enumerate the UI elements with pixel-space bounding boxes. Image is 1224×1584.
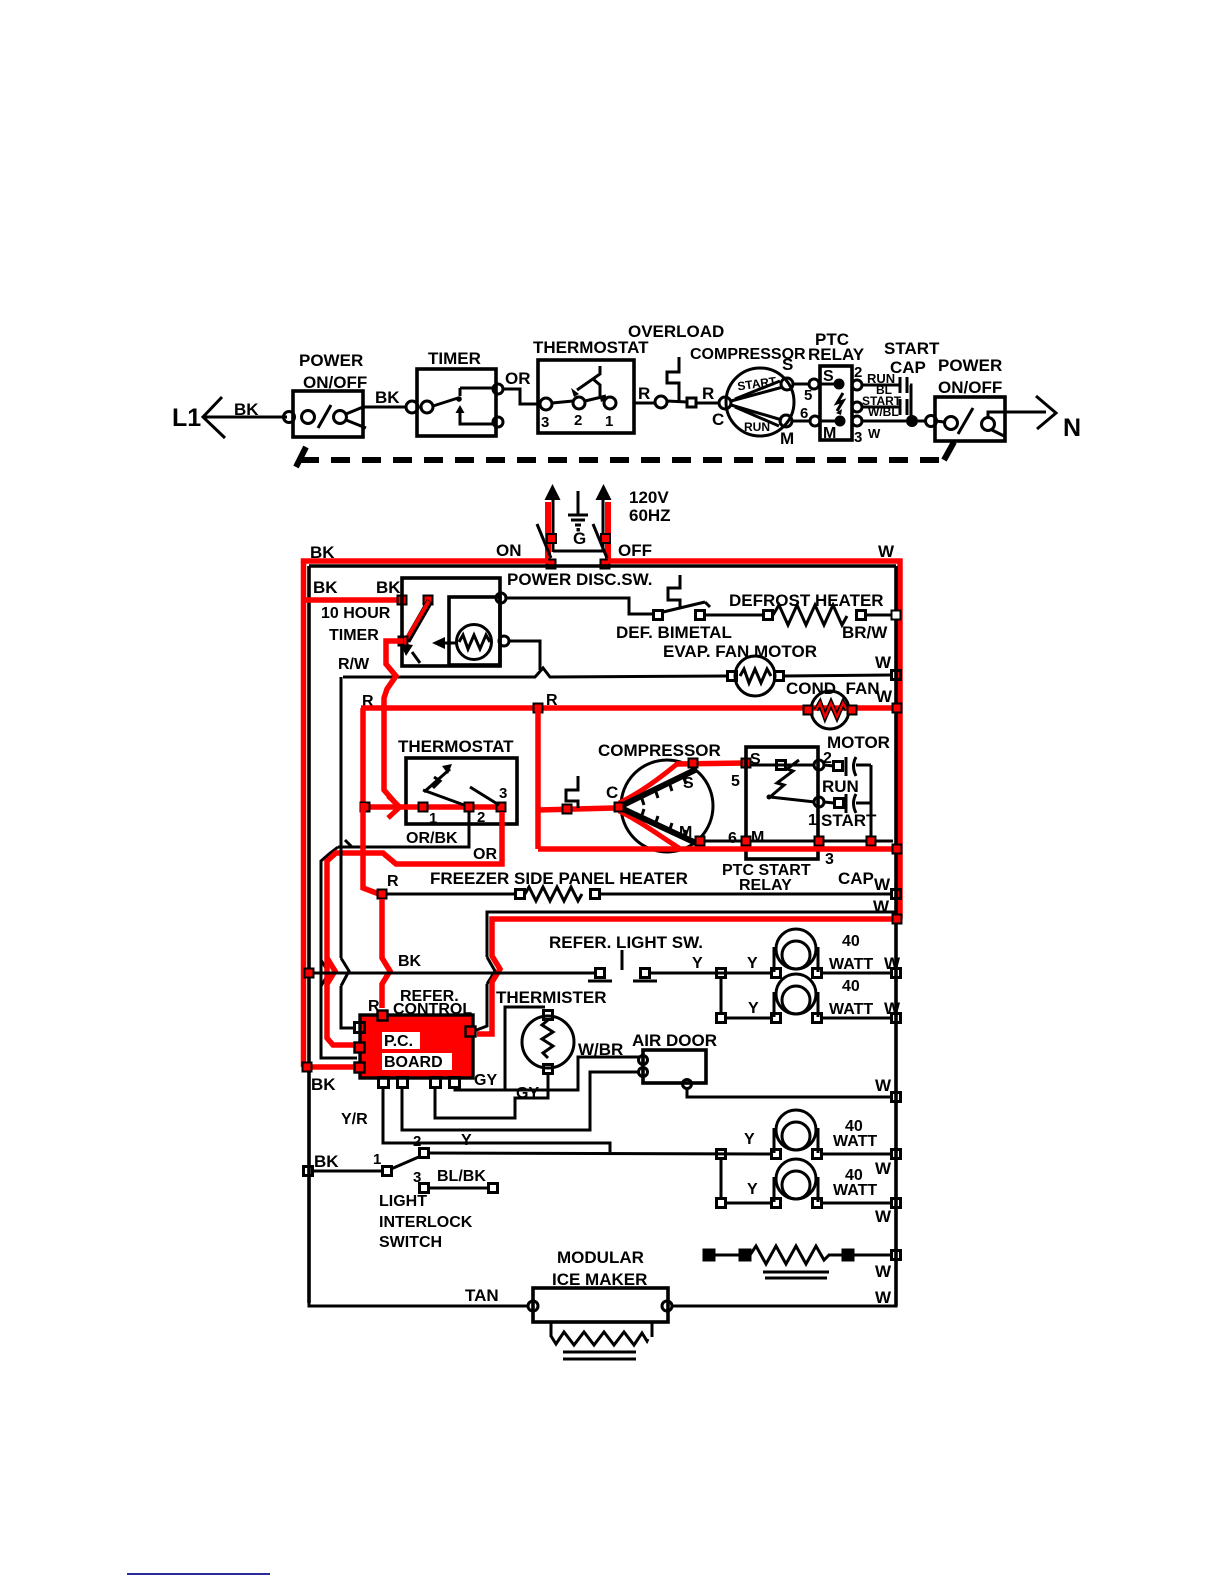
svg-text:W/BR: W/BR — [578, 1040, 623, 1059]
svg-text:3: 3 — [854, 429, 862, 446]
pc terminal left 2 — [355, 1043, 365, 1053]
svg-text:BK: BK — [234, 400, 259, 419]
modular ice maker box — [528, 1288, 672, 1322]
thermostat S2 — [533, 338, 649, 433]
svg-text:120V: 120V — [629, 488, 669, 507]
node N — [1036, 396, 1081, 442]
svg-text:3: 3 — [499, 785, 507, 802]
relay internal wire to start — [770, 797, 815, 802]
P.C. BOARD U1 — [360, 1015, 473, 1078]
refer light switch — [588, 950, 657, 981]
svg-text:BOARD: BOARD — [384, 1054, 443, 1071]
run capacitor — [824, 757, 871, 776]
wire L1 to power switch — [203, 416, 287, 419]
svg-text:CAP: CAP — [890, 358, 926, 377]
TIMER-DEFROST-SECTION — [305, 575, 902, 849]
chevron on BK wire — [327, 958, 335, 984]
red drop to PC board top — [382, 899, 390, 1008]
timer T1 — [417, 349, 503, 436]
svg-text:W: W — [875, 1262, 892, 1281]
terminal circle — [496, 593, 506, 603]
svg-text:G: G — [573, 529, 586, 548]
svg-text:W: W — [875, 1159, 892, 1178]
wire ice maker to right border — [672, 1300, 896, 1306]
red top border left segment (live bus) — [304, 561, 549, 563]
GY wire thermister bottom to pc3 — [435, 1073, 548, 1118]
svg-text:RUN: RUN — [744, 420, 770, 434]
svg-text:ON/OFF: ON/OFF — [303, 373, 367, 392]
node red — [815, 837, 824, 846]
pc terminal bottom 2 — [398, 1078, 408, 1088]
OR/BK black wire from terminal 2 — [338, 812, 469, 847]
ice maker mold heater — [551, 1322, 652, 1359]
svg-text:INTERLOCK: INTERLOCK — [379, 1214, 473, 1231]
svg-text:RELAY: RELAY — [808, 345, 865, 364]
svg-text:GY: GY — [474, 1072, 497, 1089]
svg-text:Y: Y — [744, 1131, 755, 1148]
svg-text:W: W — [875, 1288, 892, 1307]
crossbar between prongs — [553, 550, 603, 553]
node red on border — [893, 704, 902, 713]
overload step symbol — [566, 776, 578, 808]
svg-text:OFF: OFF — [618, 541, 652, 560]
timer motor M1 — [432, 625, 492, 660]
svg-text:COND. FAN: COND. FAN — [786, 679, 880, 698]
thermostat terminal 2 — [465, 803, 474, 812]
thermostat terminal 1 — [419, 803, 428, 812]
svg-text:S: S — [782, 355, 793, 374]
evap fan motor M2 — [728, 656, 784, 696]
relay terminal 1 circle — [814, 797, 824, 807]
svg-text:10 HOUR: 10 HOUR — [321, 605, 391, 622]
pc terminal bottom 1 — [379, 1078, 389, 1088]
wire to lamp2 — [726, 1017, 772, 1020]
black top border — [309, 564, 896, 568]
black right border — [894, 566, 898, 1306]
drop to lamp2 — [720, 978, 723, 1014]
TAN wire from left border — [309, 1303, 529, 1306]
node red on border — [303, 1063, 312, 1072]
node red on border — [893, 915, 902, 924]
svg-text:R: R — [387, 873, 399, 890]
red branch B to thermostat — [384, 708, 398, 806]
svg-text:THERMOSTAT: THERMOSTAT — [398, 737, 514, 756]
svg-text:40: 40 — [842, 978, 860, 995]
MAIN-BORDERS — [304, 542, 901, 1306]
REFER-LIGHT-SECTION — [305, 912, 902, 1034]
svg-text:POWER: POWER — [299, 351, 363, 370]
wire pc2 to air door lower — [402, 1072, 640, 1130]
svg-text:WATT: WATT — [829, 1001, 873, 1018]
black left border — [307, 566, 311, 1303]
junction square — [717, 969, 726, 978]
red branch A continues to node — [363, 803, 379, 894]
relay terminal 2 circle — [814, 760, 824, 770]
wire to lamp4 — [726, 1202, 772, 1205]
svg-text:C: C — [712, 410, 724, 429]
compressor M wire — [700, 840, 893, 843]
air door box — [639, 1050, 707, 1089]
svg-text:TAN: TAN — [465, 1286, 499, 1305]
svg-text:W: W — [884, 999, 901, 1018]
drop to lamp4 — [720, 1159, 723, 1199]
svg-text:W: W — [875, 1076, 892, 1095]
pc terminal left 1 — [355, 1023, 365, 1033]
wire to N — [1005, 411, 1046, 414]
svg-text:5: 5 — [804, 387, 812, 404]
svg-text:M: M — [679, 824, 692, 841]
pc terminal bottom 3 — [431, 1078, 441, 1088]
black line from evap wire down to pc board — [341, 677, 356, 1028]
svg-text:3: 3 — [413, 1169, 421, 1186]
wire lamp1 to border — [822, 972, 893, 975]
defrost timer box — [402, 578, 500, 666]
wire timer to thermostat — [503, 389, 540, 404]
lamp 2 40W — [772, 974, 822, 1023]
svg-text:BK: BK — [310, 543, 335, 562]
start capacitor — [862, 339, 940, 441]
svg-text:2: 2 — [574, 412, 582, 429]
svg-text:REFER. LIGHT SW.: REFER. LIGHT SW. — [549, 933, 703, 952]
terminal square — [563, 805, 572, 814]
red left border — [301, 561, 307, 1067]
Y wire to lamp3 — [428, 1153, 772, 1154]
svg-text:2: 2 — [413, 1133, 421, 1150]
svg-text:2: 2 — [854, 364, 862, 381]
PLUG-120V — [496, 484, 671, 589]
compressor motor main — [615, 760, 714, 852]
thermostat blade 1 — [423, 790, 464, 805]
footer blue line — [127, 1573, 270, 1575]
svg-text:CAP: CAP — [838, 869, 874, 888]
dashed neutral return wire — [300, 457, 942, 463]
black top wire of light section — [474, 912, 896, 1031]
wire BK to interlock — [313, 1170, 384, 1173]
svg-text:1: 1 — [808, 812, 817, 829]
red wire from left border to pc board — [303, 1064, 357, 1070]
svg-text:ICE MAKER: ICE MAKER — [552, 1270, 647, 1289]
svg-text:W: W — [884, 954, 901, 973]
svg-text:6: 6 — [800, 405, 808, 422]
node red — [424, 596, 433, 605]
junction square — [717, 1150, 726, 1159]
node red on border left prong — [547, 560, 556, 569]
overload protector — [628, 322, 724, 407]
node red on bus — [534, 704, 543, 713]
wire overload to compressor — [696, 402, 719, 405]
node red on border — [893, 845, 902, 854]
svg-text:COMPRESSOR: COMPRESSOR — [598, 741, 721, 760]
svg-text:TIMER: TIMER — [428, 349, 481, 368]
svg-text:START: START — [821, 811, 877, 830]
svg-text:Y: Y — [747, 1181, 758, 1198]
wire BK to timer — [363, 406, 407, 409]
svg-text:1: 1 — [373, 1151, 381, 1168]
ice maker heater resistor row — [704, 1246, 901, 1278]
svg-text:W: W — [878, 542, 895, 561]
OR red wire from terminal 3 — [327, 812, 502, 1045]
svg-text:RELAY: RELAY — [739, 877, 792, 894]
thermostat terminal 3 — [497, 803, 506, 812]
node red — [378, 890, 387, 899]
svg-text:THERMISTER: THERMISTER — [496, 988, 607, 1007]
border terminal square — [304, 1167, 313, 1176]
svg-text:BK: BK — [313, 578, 338, 597]
svg-text:Y: Y — [461, 1132, 472, 1149]
red wire compressor S to PTC — [676, 763, 746, 764]
wire pc4 to thermister top and air door (W/BR) — [455, 1057, 640, 1090]
red drop to compressor — [535, 708, 541, 849]
svg-text:S: S — [683, 775, 694, 792]
svg-text:DEFROST HEATER: DEFROST HEATER — [729, 591, 884, 610]
svg-text:OR: OR — [473, 846, 497, 863]
wire lamp2 to border — [822, 1017, 893, 1020]
node red — [689, 759, 698, 768]
svg-text:N: N — [1063, 414, 1081, 442]
svg-text:DEF. BIMETAL: DEF. BIMETAL — [616, 623, 732, 642]
node red — [696, 837, 705, 846]
svg-text:Y/R: Y/R — [341, 1111, 368, 1128]
thermostat box — [406, 758, 517, 824]
lamp 3 40W — [772, 1110, 822, 1159]
chevron on BK wire — [321, 960, 329, 986]
svg-text:W: W — [868, 426, 881, 441]
node red — [398, 596, 407, 605]
svg-text:S: S — [823, 368, 834, 385]
svg-text:C: C — [606, 783, 618, 802]
svg-text:AIR DOOR: AIR DOOR — [632, 1031, 717, 1050]
svg-text:1: 1 — [429, 810, 437, 827]
red main bus — [361, 705, 900, 711]
wire timer switch to def bimetal — [506, 598, 654, 614]
thermister RT1 — [505, 1007, 574, 1090]
svg-text:EVAP. FAN MOTOR: EVAP. FAN MOTOR — [663, 642, 817, 661]
lamp 4 40W — [772, 1159, 822, 1208]
svg-text:M: M — [751, 829, 764, 846]
relay terminal 2 — [852, 380, 862, 390]
terminal circle — [499, 636, 509, 646]
svg-text:SWITCH: SWITCH — [379, 1234, 442, 1251]
lamp 1 40W — [772, 929, 822, 978]
red wire bus to compressor C — [538, 808, 614, 810]
node red — [867, 837, 876, 846]
terminal square on border — [892, 671, 901, 680]
defrost heater R — [729, 591, 901, 625]
wire to defrost heater — [705, 614, 763, 617]
svg-text:WATT: WATT — [833, 1133, 877, 1150]
svg-text:POWER DISC.SW.: POWER DISC.SW. — [507, 570, 652, 589]
svg-text:BR/W: BR/W — [842, 623, 888, 642]
pc terminal bottom 4 — [450, 1078, 460, 1088]
thermostat thermal arrow — [424, 764, 452, 792]
timer inner box — [449, 597, 500, 665]
wire evap fan feed — [343, 668, 727, 677]
svg-text:5: 5 — [731, 773, 740, 790]
svg-text:Y: Y — [748, 1000, 759, 1017]
relay internal wire top — [749, 764, 815, 767]
svg-text:Y: Y — [692, 955, 703, 972]
svg-text:R/W: R/W — [338, 656, 370, 673]
plug prong ON (left) — [537, 484, 561, 563]
svg-text:OR/BK: OR/BK — [406, 830, 458, 847]
switch S1 POWER ON/OFF — [293, 351, 367, 437]
svg-text:BK: BK — [314, 1152, 339, 1171]
svg-text:R: R — [638, 384, 650, 403]
svg-text:BK: BK — [398, 953, 422, 970]
wire timer motor to evap wire — [509, 641, 540, 670]
timer input terminals — [406, 401, 418, 413]
svg-text:W: W — [876, 687, 893, 706]
svg-text:POWER: POWER — [938, 356, 1002, 375]
svg-text:MOTOR: MOTOR — [827, 733, 890, 752]
Y/R wire pc1 down — [383, 1087, 610, 1152]
terminal circle — [284, 412, 295, 423]
svg-text:M: M — [823, 425, 836, 442]
svg-text:1: 1 — [605, 413, 613, 430]
THERMO-COMPRESSOR-SECTION — [321, 677, 902, 1058]
BK wire to refer light switch — [313, 972, 596, 975]
wire switch to lamp1 — [650, 972, 772, 975]
svg-text:40: 40 — [842, 933, 860, 950]
wire S to relay — [793, 383, 809, 386]
chevron — [487, 957, 495, 984]
wire to power switch 2 — [918, 420, 926, 423]
svg-text:W: W — [874, 875, 891, 894]
red top border right segment — [608, 561, 900, 919]
red feed bus light section — [477, 919, 900, 1034]
relay terminal 3 — [852, 416, 862, 426]
svg-text:BK: BK — [311, 1075, 336, 1094]
PTC relay top — [808, 330, 865, 442]
timer switch blade (red highlighted) — [407, 601, 430, 641]
svg-text:RUN: RUN — [822, 777, 859, 796]
svg-text:6: 6 — [728, 830, 737, 847]
wire thermostat to overload — [634, 402, 656, 405]
compressor motor top — [690, 346, 806, 448]
svg-text:3: 3 — [825, 851, 834, 868]
wire lamp4 to border — [822, 1202, 893, 1205]
node red R — [361, 803, 370, 812]
pc terminal right — [466, 1027, 476, 1037]
PCBOARD-SECTION — [303, 988, 901, 1152]
red wire through thermostat — [363, 804, 502, 810]
plug prong OFF (right) — [593, 484, 612, 563]
svg-text:LIGHT: LIGHT — [379, 1193, 427, 1210]
red branch A down-left — [360, 708, 366, 803]
ICEMAKER-SECTION — [309, 1248, 896, 1359]
red R/W drop from timer — [384, 641, 403, 708]
TOP-LADDER — [172, 322, 1081, 448]
svg-text:2: 2 — [477, 809, 485, 826]
svg-text:60HZ: 60HZ — [629, 506, 671, 525]
svg-text:P.C.: P.C. — [384, 1033, 413, 1050]
thermostat blade 2 — [470, 787, 499, 805]
ground symbol G — [568, 491, 588, 548]
svg-text:L1: L1 — [172, 404, 201, 432]
pc terminal left 3 — [355, 1063, 365, 1073]
svg-text:R: R — [702, 384, 714, 403]
node red — [742, 759, 751, 768]
air door to border wire — [687, 1089, 893, 1097]
wire M to relay — [792, 420, 810, 423]
freezer side panel heater R — [387, 887, 901, 901]
svg-text:W: W — [875, 653, 892, 672]
wire BK red feed to timer — [305, 597, 400, 603]
svg-text:BL/BK: BL/BK — [437, 1168, 486, 1185]
DASHED-RETURN — [296, 442, 954, 467]
svg-text:W: W — [875, 1207, 892, 1226]
svg-text:ON/OFF: ON/OFF — [938, 378, 1002, 397]
red lower bus — [538, 846, 900, 852]
svg-text:MODULAR: MODULAR — [557, 1248, 644, 1267]
node red — [742, 837, 751, 846]
light interlock switch — [383, 1149, 498, 1193]
wire evap fan to border — [784, 675, 893, 676]
svg-text:WATT: WATT — [833, 1182, 877, 1199]
svg-text:OVERLOAD: OVERLOAD — [628, 322, 724, 341]
chevron merge — [388, 796, 400, 818]
svg-text:BK: BK — [375, 388, 400, 407]
pc terminal top R — [378, 1011, 388, 1021]
svg-text:BK: BK — [376, 578, 401, 597]
svg-text:Y: Y — [747, 955, 758, 972]
PTC thermistor bolt — [770, 760, 799, 797]
INTERLOCK-LAMPS-SECTION — [304, 1110, 901, 1307]
svg-text:WATT: WATT — [829, 956, 873, 973]
cap join vertical — [870, 765, 873, 841]
svg-text:ON: ON — [496, 541, 522, 560]
node red — [399, 637, 408, 646]
svg-text:START: START — [884, 339, 940, 358]
chevron at BK wire — [341, 958, 349, 986]
svg-text:TIMER: TIMER — [329, 627, 379, 644]
PTC start relay box — [746, 747, 818, 859]
svg-text:FREEZER SIDE PANEL HEATER: FREEZER SIDE PANEL HEATER — [430, 869, 688, 888]
svg-text:3: 3 — [541, 414, 549, 431]
node L1 — [172, 397, 225, 438]
node red on left border — [305, 969, 314, 978]
relay terminal start — [852, 402, 862, 412]
wire lamp3 to border — [822, 1153, 893, 1156]
switch S3 POWER ON/OFF right — [935, 356, 1005, 441]
svg-text:OR: OR — [505, 369, 531, 388]
start capacitor lower — [824, 794, 871, 813]
def bimetal switch — [616, 575, 732, 642]
cond fan motor M3 — [804, 691, 857, 729]
svg-text:M: M — [780, 429, 794, 448]
node red on border right prong — [601, 560, 610, 569]
